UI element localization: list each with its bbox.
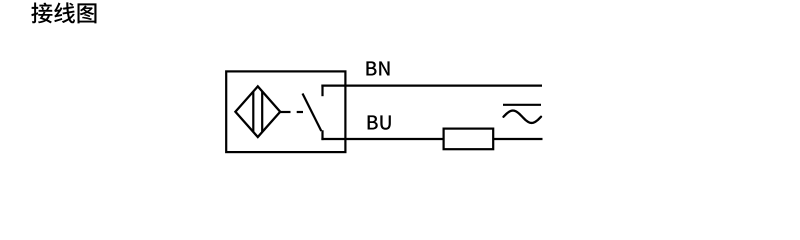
switch contact blade <box>303 94 322 132</box>
actuation dash <box>297 111 303 113</box>
load resistor <box>444 129 494 150</box>
sensor housing box <box>226 71 345 152</box>
wire BU left segment (blue) <box>321 138 443 140</box>
wire BN (brown) <box>321 84 542 86</box>
label BN <box>366 61 389 75</box>
switch upper terminal stub <box>321 85 323 97</box>
title 接线图 (wiring diagram) <box>31 2 96 23</box>
AC supply symbol bar <box>503 104 541 106</box>
switch lower terminal stub <box>321 130 323 140</box>
wire BU right segment <box>494 138 543 140</box>
sensor output lead <box>280 111 290 113</box>
label BU <box>368 115 391 129</box>
proximity sensor symbol (diamond) <box>235 86 280 137</box>
AC supply symbol sine wave <box>504 111 542 123</box>
